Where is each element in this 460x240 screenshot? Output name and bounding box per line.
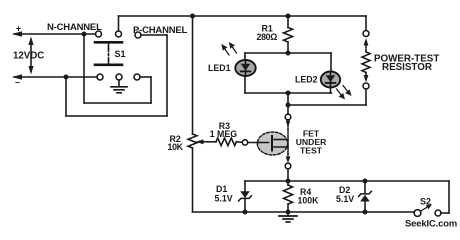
battery 12VDC measurement arrow — [28, 37, 33, 75]
wire: lower horizontal to P-channel column — [66, 115, 167, 117]
zener diode D1 — [239, 181, 252, 212]
wire: LED box left upper — [244, 53, 246, 60]
ground (under R4) — [279, 212, 297, 222]
potentiometer R2 — [188, 16, 197, 212]
node + terminal (12VDC positive lead) — [12, 31, 96, 36]
switch S1 terminal B2 — [116, 74, 122, 80]
wire: gate dashed lead — [249, 142, 260, 144]
wire: P-channel terminal to right column down — [141, 35, 167, 116]
resistor R3 with wiper arrow — [196, 138, 243, 146]
wire: + rail branch down past switch — [83, 34, 85, 103]
FET under test (dashed outline) — [257, 121, 290, 164]
svg-text:S2: S2 — [420, 197, 431, 207]
junction D2 top — [363, 179, 368, 184]
svg-text:100K: 100K — [298, 196, 320, 206]
switch S1 terminal A1 — [96, 31, 102, 37]
wire: bottom rail — [193, 211, 415, 213]
junction R4 bottom / ground — [286, 210, 291, 215]
wire: FET source down to bottom network — [287, 169, 289, 181]
svg-text:S1: S1 — [115, 49, 126, 59]
junction D1 bottom — [243, 210, 248, 215]
switch S1 terminal B3 — [134, 74, 140, 80]
wire: - rail branch down — [65, 77, 67, 116]
resistor R4 — [284, 181, 293, 212]
wire: bottom of switch loop horizontal — [84, 102, 151, 104]
svg-text:–: – — [15, 77, 20, 87]
junction on + rail — [82, 32, 87, 37]
LED LED1 — [221, 42, 255, 76]
wire: top rail down to test socket — [365, 16, 367, 31]
resistor R1 — [284, 16, 293, 53]
switch S1 terminal A2 — [116, 31, 122, 37]
switch S1 terminal B1 — [97, 74, 103, 80]
junction LED box top — [286, 51, 291, 56]
wire: LED box right upper — [330, 53, 332, 72]
svg-text:12VDC: 12VDC — [13, 50, 44, 61]
svg-text:5.1V: 5.1V — [336, 194, 354, 204]
wire: center column from LED box bottom down — [287, 93, 289, 114]
svg-text:P-CHANNEL: P-CHANNEL — [133, 25, 188, 36]
svg-text:SeekIC.com: SeekIC.com — [405, 218, 457, 229]
node: FET drain socket — [285, 114, 291, 120]
svg-text:LED1: LED1 — [208, 63, 231, 73]
junction top rail at R2 column — [190, 14, 195, 19]
svg-text:+: + — [16, 24, 21, 34]
svg-text:LED2: LED2 — [295, 75, 318, 85]
wire: up to switch terminal B3 — [140, 77, 151, 103]
zener diode D2 — [359, 181, 372, 212]
switch S1 terminal P (P-CHANNEL) — [135, 32, 141, 38]
wire: switch terminal A2 up to top rail — [118, 16, 120, 31]
LED LED2 — [321, 72, 352, 100]
junction top rail at R1 — [286, 14, 291, 19]
svg-text:10K: 10K — [168, 142, 184, 152]
switch S1 mechanical link (dashed) — [108, 49, 110, 61]
switch S1 pole A bar — [95, 42, 122, 49]
wire: top rail — [119, 15, 367, 17]
svg-text:TEST: TEST — [300, 145, 323, 155]
svg-text:5.1V: 5.1V — [215, 194, 233, 204]
junction R4 top — [286, 179, 291, 184]
node: FET gate socket — [242, 140, 247, 145]
switch S2 — [414, 204, 441, 216]
svg-text:N-CHANNEL: N-CHANNEL — [47, 22, 102, 33]
svg-text:1 MEG: 1 MEG — [210, 129, 238, 139]
node - terminal (12VDC negative lead) — [12, 74, 97, 79]
junction center column / power-test return — [286, 103, 291, 108]
junction LED box bottom — [286, 91, 291, 96]
svg-text:RESISTOR: RESISTOR — [382, 62, 432, 73]
wire: horizontal to center column — [288, 104, 366, 106]
node: test socket lower — [363, 83, 369, 89]
wire: LED box left lower — [244, 76, 246, 93]
wire: LED box bottom — [245, 92, 332, 94]
wire: LED2 down to box bottom — [330, 88, 332, 94]
power-test resistor (plug-in, dashed) — [362, 38, 370, 83]
junction on - rail — [64, 75, 69, 80]
wire: right side down to S2 — [441, 181, 449, 213]
wire: socket lower lead down — [365, 89, 367, 105]
junction D2 bottom — [363, 210, 368, 215]
ground (under switch S1) — [111, 80, 127, 93]
node: FET source socket — [285, 163, 291, 169]
switch S1 pole B bar — [95, 61, 122, 65]
wire: LED box top — [245, 52, 331, 54]
wire: bottom network top rail — [245, 180, 449, 182]
node: test socket upper — [363, 31, 369, 37]
svg-text:280Ω: 280Ω — [257, 32, 278, 42]
